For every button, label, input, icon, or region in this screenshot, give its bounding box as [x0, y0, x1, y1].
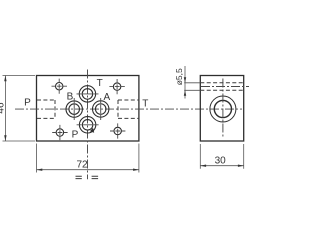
port A inner circle — [95, 104, 106, 115]
svg-text:P: P — [72, 130, 79, 141]
svg-text:30: 30 — [215, 156, 227, 167]
svg-text:T: T — [97, 78, 103, 89]
svg-text:T: T — [142, 98, 148, 109]
port B vertical crosshair — [73, 98, 75, 120]
svg-text:A: A — [103, 92, 110, 103]
port P leader arrowhead — [90, 128, 94, 133]
mounting hole bottom-right crosshair — [110, 123, 125, 138]
dimension 5.5 arrow up — [184, 90, 186, 96]
port P horizontal crosshair — [77, 124, 99, 126]
mounting hole top-right crosshair — [109, 79, 124, 94]
port B inner circle — [69, 104, 80, 115]
body outline top view — [37, 76, 139, 142]
mounting hole top-left — [56, 83, 63, 90]
hidden side port P (left, dashed) — [37, 100, 55, 118]
dimension 46 arrow up — [4, 76, 6, 82]
dimension 46 arrow down — [4, 135, 6, 141]
dimension 72 extension lines — [37, 144, 139, 173]
port P outer circle — [79, 117, 95, 133]
mounting hole bottom-left — [56, 129, 63, 136]
port T horizontal crosshair — [77, 93, 99, 95]
port T inner circle — [82, 89, 93, 100]
dimension 72 arrow left — [37, 169, 43, 171]
dimension 46 line — [4, 76, 6, 142]
dimension 30 arrow left — [200, 165, 206, 167]
body outline side view — [200, 76, 243, 142]
dimension 5.5 line — [184, 66, 186, 99]
port T outer circle — [79, 86, 95, 102]
side port vertical centerline — [222, 79, 224, 138]
hidden mounting hole lines in side view — [200, 83, 243, 91]
dimension 72 line — [37, 169, 139, 171]
hidden side port T (right, dashed) — [118, 100, 138, 118]
side port outer circle (thread) — [210, 96, 236, 122]
port A vertical crosshair — [100, 98, 102, 120]
mounting hole top-left crosshair — [52, 79, 68, 94]
horizontal centerline through B and A ports — [15, 108, 242, 110]
svg-text:46: 46 — [0, 102, 7, 114]
mounting hole top-right — [113, 83, 120, 90]
mounting hole bottom-right — [114, 127, 121, 134]
dimension 72 arrow right — [133, 169, 139, 171]
vertical centerline through T and P — [87, 70, 89, 180]
dimension 30 arrow right — [238, 165, 244, 167]
dimension 46 extension lines — [3, 76, 36, 142]
port B outer circle — [66, 101, 82, 117]
dimension 5.5 extension lines — [184, 83, 200, 91]
svg-text:ø5,5: ø5,5 — [174, 68, 184, 85]
dimension 30 line — [200, 165, 243, 167]
svg-text:72: 72 — [76, 159, 88, 170]
port P inner circle — [82, 120, 93, 131]
equals marks below centerline — [76, 176, 99, 178]
svg-text:B: B — [67, 91, 74, 102]
side port inner circle — [214, 100, 231, 117]
mounting hole centerline in side view — [201, 86, 249, 88]
port A outer circle — [93, 101, 109, 117]
mounting hole bottom-left crosshair — [52, 125, 67, 140]
svg-text:P: P — [24, 97, 31, 108]
dimension 5.5 arrow down — [184, 77, 186, 83]
dimension 30 extension lines — [200, 144, 243, 169]
